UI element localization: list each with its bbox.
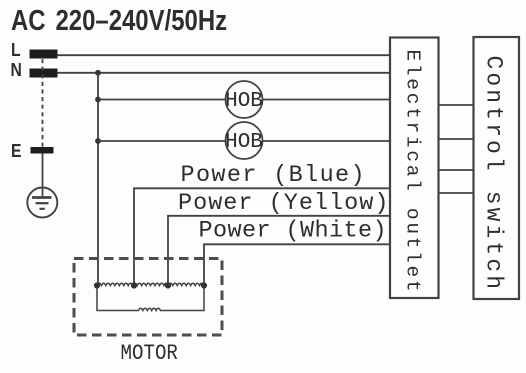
motor enclosure dashed box — [74, 259, 222, 336]
fuse N — [30, 69, 58, 78]
svg-text:Power (Yellow): Power (Yellow) — [178, 190, 389, 217]
junction node HOB1 — [95, 97, 101, 103]
svg-text:Power (Blue): Power (Blue) — [181, 162, 366, 189]
motor junction node 2 — [131, 282, 137, 288]
svg-text:HOB: HOB — [225, 131, 263, 154]
wire Power Blue — [134, 188, 390, 286]
svg-text:Electrical outlet: Electrical outlet — [402, 50, 424, 295]
hob lamp HOB1 — [225, 81, 263, 118]
motor junction node 3 — [165, 282, 171, 288]
svg-text:AC 220–240V/50Hz: AC 220–240V/50Hz — [11, 4, 227, 37]
control switch box — [474, 37, 520, 299]
fuse E — [31, 147, 54, 154]
connector wire 2 outlet to switch — [439, 138, 474, 140]
wire to hob lamp HOB1 — [98, 99, 226, 101]
wire to hob lamp HOB2 — [98, 140, 226, 142]
svg-text:MOTOR: MOTOR — [121, 342, 178, 367]
wire HOB2 to outlet — [263, 140, 391, 142]
svg-text:E: E — [11, 140, 21, 162]
motor junction node 4 — [201, 282, 207, 288]
motor auxiliary winding loop — [97, 286, 204, 311]
svg-text:Control switch: Control switch — [481, 56, 507, 293]
motor main winding — [97, 283, 204, 285]
hob lamp HOB2 — [225, 122, 263, 159]
junction node HOB2 — [95, 138, 101, 144]
wire N — [58, 72, 391, 74]
motor junction node 1 — [94, 282, 100, 288]
junction node on N wire — [95, 70, 101, 76]
neutral bus vertical wire — [97, 73, 99, 286]
svg-text:N: N — [11, 59, 22, 81]
earth ground symbol — [27, 188, 57, 218]
connector wire 3 outlet to switch — [439, 169, 474, 171]
wire Power White — [204, 244, 390, 286]
connector wire 4 outlet to switch — [439, 192, 474, 194]
svg-text:L: L — [11, 39, 21, 61]
electrical outlet box — [390, 38, 439, 299]
dashed earth link — [42, 59, 44, 147]
connector wire 1 outlet to switch — [439, 104, 474, 106]
earth lead wire — [42, 154, 44, 198]
wire HOB1 to outlet — [263, 99, 391, 101]
wire L — [58, 54, 391, 56]
wire Power Yellow — [168, 216, 390, 286]
svg-text:Power (White): Power (White) — [199, 218, 388, 245]
fuse L — [30, 50, 58, 59]
svg-text:HOB: HOB — [225, 90, 263, 113]
